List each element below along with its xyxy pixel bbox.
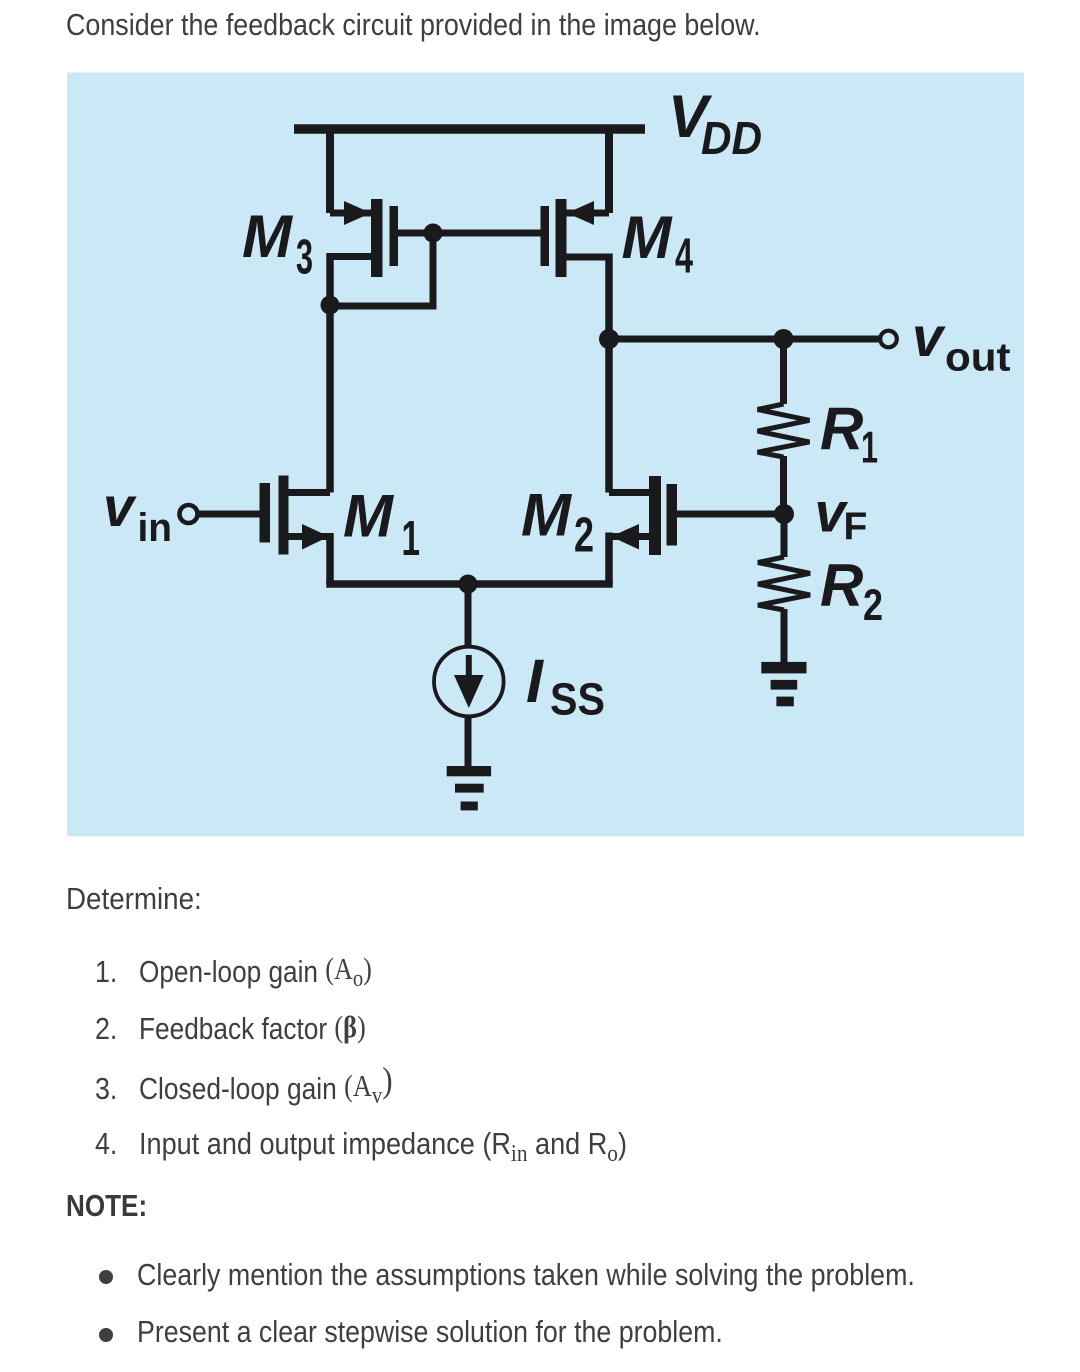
svg-text:1: 1 xyxy=(402,512,421,566)
svg-text:M: M xyxy=(242,203,294,270)
svg-text:4: 4 xyxy=(675,230,693,284)
svg-text:I: I xyxy=(526,647,544,715)
svg-text:1: 1 xyxy=(861,424,878,473)
svg-text:M: M xyxy=(343,483,395,550)
svg-text:out: out xyxy=(945,336,1011,380)
svg-text:R: R xyxy=(820,396,863,463)
svg-text:v: v xyxy=(912,305,946,368)
svg-text:in: in xyxy=(138,506,173,550)
svg-text:F: F xyxy=(844,506,868,549)
svg-text:3: 3 xyxy=(296,231,313,285)
svg-text:2: 2 xyxy=(863,581,883,630)
svg-text:M: M xyxy=(622,204,674,271)
svg-text:R: R xyxy=(820,552,863,619)
svg-text:DD: DD xyxy=(701,112,762,164)
svg-text:M: M xyxy=(521,482,573,549)
svg-text:v: v xyxy=(103,475,137,538)
svg-text:SS: SS xyxy=(550,674,605,725)
svg-text:2: 2 xyxy=(574,509,594,563)
